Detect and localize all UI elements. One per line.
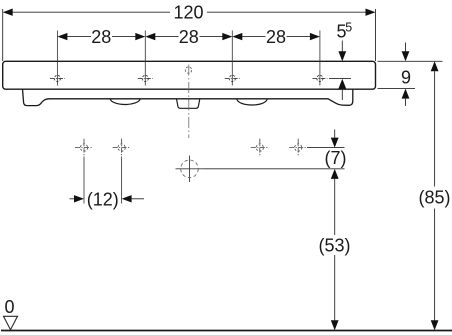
svg-text:120: 120 (173, 3, 203, 23)
svg-text:(7): (7) (325, 148, 347, 168)
dimension (53) bottom arrow (331, 320, 339, 330)
lower hole cross left B (113, 139, 131, 157)
dimension 28 (segment 1) (67, 36, 136, 38)
extension line at drain level (for dim 7 / 53) (204, 168, 345, 170)
dimension (12) (70, 198, 75, 200)
centerline of drain (188, 65, 190, 139)
extension line left of dim 120 (2, 9, 4, 61)
tap hole 2 (138, 75, 153, 81)
trap recess arc right (237, 99, 267, 105)
tap hole 3 (225, 75, 240, 81)
svg-text:28: 28 (179, 27, 199, 47)
svg-text:(12): (12) (87, 189, 119, 209)
overflow circle (185, 67, 191, 73)
basin underside profile (23, 89, 353, 105)
lower hole cross left A (75, 139, 93, 157)
drain crosshair (176, 156, 204, 183)
dimension 9 bottom arrow (402, 89, 410, 99)
dimension 9 top arrow (405, 43, 407, 53)
extension line top right (for 9 and 85) (378, 60, 443, 62)
drain fitting (177, 99, 200, 109)
dimension (53) line (334, 179, 336, 235)
dimension (85) line (431, 61, 439, 71)
extension line bottom (for 9) (378, 88, 416, 90)
svg-text:5: 5 (345, 21, 352, 35)
svg-text:(85): (85) (418, 188, 450, 208)
extension lines for 28 dims (down to tap holes) (57, 31, 320, 86)
svg-text:9: 9 (401, 68, 411, 88)
trap recess arc left (110, 99, 140, 105)
basin rim outline (3, 61, 376, 89)
svg-text:(53): (53) (318, 236, 350, 256)
dimension 28 (segment 2) (155, 36, 223, 38)
dimension 5.5 extension line at tap hole level (329, 78, 351, 80)
dimension 5.5 top arrow (341, 41, 343, 53)
lower hole cross right A (251, 139, 269, 157)
tap hole 4 (312, 75, 327, 81)
svg-text:28: 28 (266, 27, 286, 47)
extension line at lower cross level (for dim 7) (307, 147, 345, 149)
svg-text:0: 0 (4, 297, 14, 317)
zero level triangle (4, 316, 18, 329)
dimension 120 (10, 11, 369, 13)
tap hole 1 (50, 75, 65, 81)
extension line right of dim 120 (375, 9, 377, 61)
dimension (85) bottom arrow (431, 320, 439, 330)
dimension 5.5 bottom arrow (338, 79, 346, 89)
floor line (1, 330, 452, 332)
dimension 28 (segment 3) (242, 36, 311, 38)
lower hole cross right B (289, 139, 307, 157)
svg-text:28: 28 (91, 27, 111, 47)
dimension (7)/(53) shared up arrow (331, 169, 339, 179)
dimension (12) extension lines (83, 157, 85, 204)
dimension (7) top arrow (334, 130, 336, 139)
